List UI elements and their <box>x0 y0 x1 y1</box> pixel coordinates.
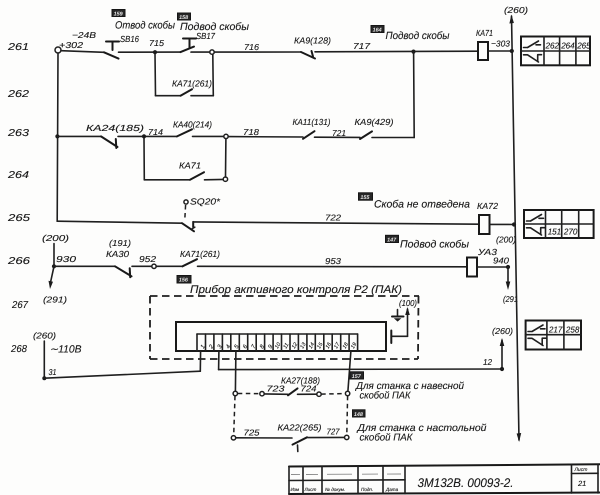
tag 158 <box>178 13 191 21</box>
svg-text:715: 715 <box>149 38 164 48</box>
wire bus to KA24 <box>57 135 101 137</box>
wire KA9 to coil KA71 <box>315 50 478 53</box>
svg-text:SB16: SB16 <box>120 34 139 44</box>
node junction 12/260 <box>500 367 504 371</box>
ground <box>392 310 404 322</box>
svg-text:(100): (100) <box>399 298 417 308</box>
wire branch right segment <box>191 95 213 97</box>
node 31 <box>42 376 46 380</box>
node 952 socket circle <box>152 264 156 268</box>
svg-text:(200): (200) <box>42 233 69 243</box>
wire PAK dashed enclosure <box>150 296 419 359</box>
svg-text:31: 31 <box>49 367 57 377</box>
svg-text:+302: +302 <box>59 40 83 50</box>
contact KA9(128) <box>301 51 315 59</box>
svg-text:21: 21 <box>577 479 586 488</box>
svg-text:217: 217 <box>548 324 564 334</box>
svg-text:164: 164 <box>373 27 382 33</box>
capacitor plate electrode <box>390 331 392 344</box>
relay coil KA72 <box>479 215 490 234</box>
wire SB17 to node 716 <box>191 51 210 53</box>
svg-text:724: 724 <box>301 384 317 394</box>
svg-text:261: 261 <box>7 42 29 53</box>
svg-text:Подп.: Подп. <box>361 487 373 492</box>
wire stub 260 down to node 31 <box>43 341 45 378</box>
wire node to KA9(128) <box>214 51 301 53</box>
wire 723 to KA27 <box>264 393 288 395</box>
symbol NO contact table UA3 <box>528 325 545 332</box>
contact cross-reference table KA72 <box>524 210 594 238</box>
svg-text:∼110В: ∼110В <box>50 344 82 356</box>
svg-text:930: 930 <box>56 254 76 264</box>
svg-text:727: 727 <box>327 427 341 437</box>
node socket circle 264 <box>223 177 227 181</box>
wire node to KA11 <box>228 136 303 138</box>
wire SB16 to node 715 <box>119 51 181 53</box>
wire branch left segment <box>156 95 181 97</box>
svg-text:156: 156 <box>179 278 189 284</box>
svg-text:714: 714 <box>148 127 163 137</box>
wire terminal 19 down <box>348 351 351 391</box>
relay coil KA71 <box>478 42 488 60</box>
svg-text:Лист: Лист <box>574 467 588 473</box>
wire 930 to KA30 <box>54 265 115 267</box>
terminal strip cells <box>197 334 358 351</box>
symbol NC contact table KA71 <box>524 55 542 62</box>
node 717 <box>411 50 415 54</box>
svg-text:148: 148 <box>354 412 363 418</box>
svg-text:(260): (260) <box>504 5 528 15</box>
node 930 junction <box>52 264 56 268</box>
svg-text:№ докум.: № докум. <box>325 487 345 492</box>
node junction KA72/bus <box>512 222 516 226</box>
wire dashed to 723 <box>238 393 260 395</box>
wire branch up to line 263 <box>225 139 227 177</box>
wire right return bus <box>509 15 521 443</box>
svg-text:147: 147 <box>387 237 397 243</box>
node junction bus/line-263 <box>55 134 59 138</box>
svg-text:718: 718 <box>243 127 259 137</box>
wire corner up to node 717 <box>413 52 416 138</box>
wire dashed vertical right KA27-KA22 <box>346 396 349 435</box>
svg-text:Прибор активного контроля Р2: Прибор активного контроля Р2 (ПАК) <box>190 284 402 296</box>
wire branch down from node 716 <box>212 54 215 95</box>
wire KA71 to coil UA3 <box>198 265 468 268</box>
wire arrow down to 291 right <box>506 267 511 290</box>
contact KA9(429) <box>360 131 372 139</box>
svg-text:КА71: КА71 <box>476 28 493 38</box>
contact KA27(188) <box>288 388 298 395</box>
contact KA71 line 264 <box>190 172 204 180</box>
electromagnet coil UA3 <box>467 258 477 277</box>
wire branch down from node 715 <box>154 54 157 96</box>
svg-text:725: 725 <box>244 428 260 438</box>
svg-text:КА11(131): КА11(131) <box>293 117 331 127</box>
tag 147 <box>386 235 399 243</box>
svg-text:(191): (191) <box>109 238 131 248</box>
wire KA9(429) to corner <box>372 137 414 139</box>
wire KA27 to 724 <box>298 393 317 395</box>
svg-text:Подвод скобы: Подвод скобы <box>400 239 469 251</box>
svg-text:скобой ПАК: скобой ПАК <box>360 391 412 402</box>
svg-text:12: 12 <box>483 357 492 367</box>
svg-text:158: 158 <box>179 15 188 21</box>
svg-text:КА9(128): КА9(128) <box>294 36 331 46</box>
node socket circle KA22 left <box>231 436 235 440</box>
svg-text:952: 952 <box>139 254 156 264</box>
node 723 socket circle <box>260 392 264 396</box>
svg-text:(260): (260) <box>33 331 56 341</box>
contact KA30 <box>115 266 132 277</box>
svg-text:721: 721 <box>332 128 346 138</box>
wire line 265 left <box>57 221 182 223</box>
svg-text:SB17: SB17 <box>196 31 216 41</box>
pushbutton SB17 <box>181 39 197 53</box>
svg-text:270: 270 <box>563 227 578 237</box>
wire 725 to KA22 <box>236 437 292 439</box>
wire left bus vertical <box>56 53 59 221</box>
contact KA24(185) <box>101 136 118 148</box>
svg-text:264: 264 <box>560 41 575 51</box>
svg-text:SQ20*: SQ20* <box>190 197 221 207</box>
wire KA40 to node 718 <box>193 135 224 137</box>
wire shield to 100 with up arrow <box>391 307 410 336</box>
contact cross-reference table UA3 <box>526 321 581 350</box>
contact KA71(261) line 266 <box>183 259 198 266</box>
pencil marks row <box>291 473 401 476</box>
wire arrow up to 260 <box>500 338 505 369</box>
svg-text:157: 157 <box>352 374 362 380</box>
wire UA3 to node <box>477 266 508 268</box>
node 724 socket circle <box>317 392 321 396</box>
svg-text:(200): (200) <box>496 235 516 245</box>
wire dashed vertical left KA27-KA22 <box>234 396 235 436</box>
tag 155 <box>359 193 373 201</box>
wire 31 to terminal 1 <box>44 371 200 378</box>
svg-text:скобой ПАК: скобой ПАК <box>360 433 414 444</box>
tag 148 <box>353 410 366 418</box>
node 714 <box>142 134 146 138</box>
wire terminal 5 down <box>234 351 237 391</box>
symbol NC contact table KA72 <box>527 228 545 235</box>
svg-text:268: 268 <box>10 344 27 355</box>
svg-text:КА30: КА30 <box>106 249 129 259</box>
svg-text:717: 717 <box>353 41 371 51</box>
svg-text:267: 267 <box>11 300 28 311</box>
svg-text:722: 722 <box>325 213 341 223</box>
pushbutton SB16 <box>104 42 119 59</box>
svg-text:(291): (291) <box>43 295 67 305</box>
node 715 <box>153 50 157 54</box>
contact KA71(261) line 262 <box>181 89 193 96</box>
svg-text:265: 265 <box>7 213 31 224</box>
svg-text:159: 159 <box>114 11 123 17</box>
svg-text:258: 258 <box>565 324 580 334</box>
svg-text:−303: −303 <box>491 39 510 49</box>
svg-text:Подвод скобы: Подвод скобы <box>386 30 450 42</box>
node junction UA3 return <box>506 265 510 269</box>
svg-text:КА71(261): КА71(261) <box>180 249 220 259</box>
svg-text:КА71: КА71 <box>179 161 201 171</box>
node socket circle KA27 left <box>233 391 237 395</box>
svg-text:266: 266 <box>7 256 31 267</box>
svg-text:953: 953 <box>325 256 341 266</box>
svg-text:155: 155 <box>360 195 370 201</box>
symbol NC contact table UA3 <box>528 338 546 345</box>
node junction coil/bus <box>510 49 514 53</box>
wire dashed 724 to right <box>321 393 345 396</box>
wire stub 200 down <box>53 244 55 267</box>
svg-text:3М132В. 00093-2.: 3М132В. 00093-2. <box>418 476 514 490</box>
tag 156 <box>177 276 191 284</box>
wire KA22 to 727 <box>308 436 345 438</box>
svg-text:262: 262 <box>545 41 560 51</box>
svg-text:КА22(265): КА22(265) <box>278 423 322 433</box>
contact KA11(131) <box>303 131 315 139</box>
node socket circle KA22 right <box>345 435 349 439</box>
svg-text:716: 716 <box>244 42 259 52</box>
svg-text:КА72: КА72 <box>477 201 498 211</box>
wire 302 to SB16 <box>61 51 104 53</box>
tag 157 <box>350 372 364 380</box>
tag 164 <box>371 26 384 34</box>
svg-text:Лист: Лист <box>304 487 317 492</box>
wire KA24 to node 714 <box>118 135 177 137</box>
svg-text:151: 151 <box>548 227 562 237</box>
svg-text:КА9(429): КА9(429) <box>355 117 394 127</box>
svg-text:940: 940 <box>493 256 509 266</box>
wire terminal 1 down <box>199 351 201 371</box>
svg-text:265: 265 <box>576 41 591 51</box>
contact cross-reference table KA71 <box>521 37 590 66</box>
wire arrow down to 291 left <box>49 266 55 289</box>
terminal block P2 body <box>176 322 386 351</box>
wire terminal 3 to node 12 <box>219 368 502 371</box>
svg-text:−24В: −24В <box>72 30 96 40</box>
svg-text:Изм: Изм <box>291 487 300 492</box>
wire coil KA71 to bus <box>488 50 512 52</box>
svg-text:264: 264 <box>7 170 30 181</box>
node socket circle <box>210 50 214 54</box>
tag 159 <box>112 10 125 18</box>
terminal pin numbers 1-19 <box>199 341 358 351</box>
node socket circle line263 <box>224 134 228 138</box>
wire KA11 to KA9(429) <box>315 136 361 138</box>
svg-text:Отвод скобы: Отвод скобы <box>115 20 175 32</box>
contact KA22(265) <box>293 437 308 451</box>
svg-text:(260): (260) <box>492 326 513 336</box>
node +302 source terminal <box>55 47 61 53</box>
wire KA30 to node 952 <box>132 265 152 267</box>
svg-text:КА71(261): КА71(261) <box>172 79 212 89</box>
svg-text:262: 262 <box>7 89 30 100</box>
wire branch down from node 714 <box>143 138 145 180</box>
wire SQ20 to coil KA72 <box>193 222 479 224</box>
wire 952 to KA71(261) <box>156 265 182 267</box>
svg-text:263: 263 <box>7 128 30 139</box>
symbol NO contact table KA71 <box>524 41 541 48</box>
svg-text:Скоба не отведена: Скоба не отведена <box>374 199 470 211</box>
contact KA40(214) <box>177 129 192 136</box>
svg-text:Дата: Дата <box>385 487 399 492</box>
limit switch SQ20 <box>182 200 195 231</box>
title block frame <box>289 464 600 494</box>
wire branch 264 right <box>205 178 224 180</box>
svg-text:КА24(185): КА24(185) <box>86 123 144 133</box>
wire coil KA72 to bus <box>490 223 515 225</box>
wire terminal 3 down <box>218 351 220 370</box>
svg-text:КА40(214): КА40(214) <box>173 120 212 130</box>
wire branch 264 left <box>144 179 190 181</box>
node socket circle KA27 right <box>345 391 349 395</box>
symbol NO contact table KA72 <box>527 215 544 222</box>
